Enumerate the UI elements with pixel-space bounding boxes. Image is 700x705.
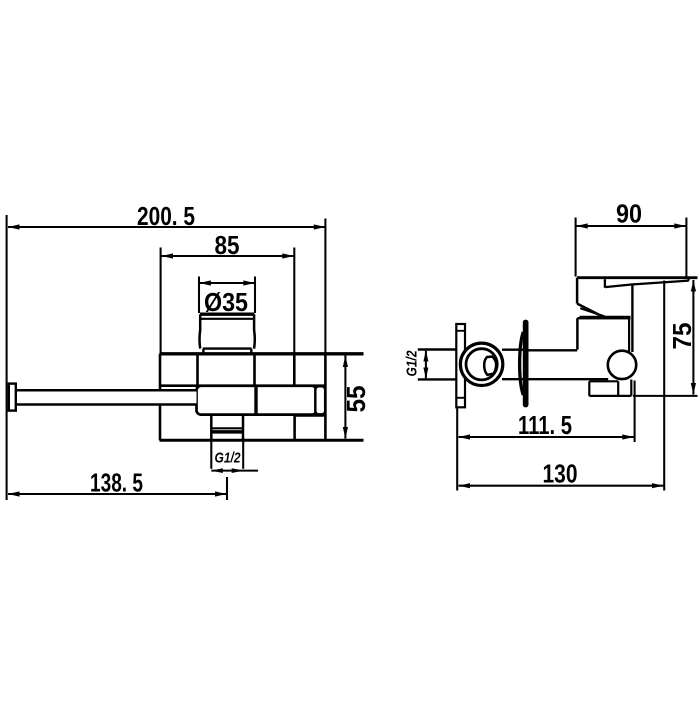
spout bar bottom line (16, 403, 197, 406)
foot top line (589, 380, 618, 382)
lever top line (extends as 75 ext) (577, 276, 698, 279)
arrow G1/2 right (232, 468, 244, 473)
top row divider b (253, 354, 256, 386)
body left edge (576, 318, 579, 349)
dim 90 ext left (575, 218, 577, 277)
bottom row divider c (293, 416, 296, 441)
svg-text:Ø35: Ø35 (204, 287, 248, 317)
arrow 55 bottom (343, 427, 348, 439)
svg-text:75: 75 (667, 323, 697, 350)
dim G1/2 right extension (242, 442, 244, 469)
under-cap line (295, 414, 326, 417)
cartridge neck left (202, 349, 204, 354)
foot right edge (630, 380, 632, 396)
spout block rounded (197, 386, 326, 415)
spout bar (9, 384, 197, 411)
body band top edge (extends right as 55 ext) (160, 352, 364, 355)
arrow 85 right (282, 253, 294, 258)
row divider line (160, 384, 325, 387)
arrow dia35 right (243, 280, 255, 285)
cartridge / handle cap on top (200, 314, 255, 354)
arrow 111.5 left (459, 434, 471, 439)
connection outer circle (460, 343, 502, 385)
dim 75 ext bottom (633, 395, 698, 397)
arrow 200.5 left (8, 224, 20, 229)
dim 90 line (576, 225, 686, 227)
pipe right top (529, 349, 578, 351)
foot bottom line (589, 395, 631, 397)
svg-text:55: 55 (341, 386, 371, 413)
pipe stub left of circle top (418, 348, 458, 350)
wall plate top notch (456, 330, 465, 332)
dim 85 line (162, 255, 294, 257)
arrow 130 left (459, 483, 471, 488)
pipe stub left of circle bottom (418, 378, 458, 380)
nipple left side (210, 415, 213, 441)
dim 138.5 line (8, 493, 227, 495)
nipple thread line thin (211, 427, 243, 429)
cartridge left side (198, 314, 201, 348)
dim dia35 line (199, 282, 255, 284)
top row divider c (293, 354, 296, 386)
collar base thick line (580, 316, 631, 320)
body top line (577, 317, 630, 319)
dim 75 line (692, 280, 694, 395)
spout bar body (16, 390, 197, 404)
nipple thread line thick (211, 430, 243, 434)
body band right edge (324, 354, 327, 440)
arrow 138.5 left (8, 491, 20, 496)
arrow G1/2 bottom (423, 368, 428, 379)
dim 111.5/130 ext left (456, 408, 458, 491)
right cap (315, 386, 325, 414)
flange crescent (520, 332, 524, 395)
cartridge stem hole (484, 357, 496, 375)
dim dia35 extension right (254, 277, 256, 314)
lever tip right edge (687, 278, 689, 281)
body outer right edge (631, 284, 633, 352)
arrow 90 right (674, 223, 686, 228)
handle skirt inner diagonal (580, 308, 604, 316)
arrow G1/2 left (211, 468, 223, 473)
arrow dia35 left (199, 280, 211, 285)
pipe right bottom (529, 378, 609, 380)
svg-text:G1/2: G1/2 (404, 350, 421, 377)
dim 90 ext right (685, 218, 687, 277)
arrow 75 top (691, 280, 696, 292)
svg-text:130: 130 (543, 459, 578, 489)
cartridge second line (200, 318, 254, 320)
spout block divider (254, 386, 257, 414)
svg-text:111. 5: 111. 5 (518, 410, 572, 440)
lever front face (604, 279, 606, 288)
spout end cap (9, 384, 16, 411)
arrow 55 top (343, 356, 348, 368)
cartridge neck right (250, 349, 252, 354)
cartridge top thick line (200, 313, 254, 316)
dim dia35 extension left (198, 277, 200, 314)
arrow 90 left (576, 223, 588, 228)
right view object (418, 278, 698, 408)
svg-text:138. 5: 138. 5 (90, 468, 143, 498)
dim G1/2 line vertical (425, 351, 427, 378)
wall plate bottom notch (456, 397, 465, 399)
arrowheads left view (8, 224, 348, 496)
foot divider (617, 381, 619, 396)
arrowheads right view (423, 223, 696, 488)
svg-text:85: 85 (215, 230, 240, 260)
dim 200.5 extension left (6, 215, 8, 500)
dim 55 line (344, 356, 346, 439)
svg-text:90: 90 (616, 199, 642, 229)
dim 111.5 ext right (634, 381, 636, 443)
nipple right side (242, 415, 245, 441)
handle skirt outer diagonal (577, 304, 604, 318)
dim G1/2 line (211, 470, 258, 472)
nipple below block (211, 415, 243, 441)
dim 200.5 line (8, 226, 325, 228)
dim 111.5 line (459, 436, 634, 438)
svg-text:G1/2: G1/2 (215, 450, 242, 467)
body inner right edge (628, 319, 630, 351)
foot left edge (588, 381, 590, 396)
svg-text:200. 5: 200. 5 (137, 201, 195, 231)
dim 85 extension right (293, 248, 295, 354)
connection inner circle (466, 349, 497, 380)
arrow 75 bottom (691, 383, 696, 395)
dim 200.5 extension right (324, 219, 326, 354)
cartridge bottom line (203, 347, 252, 349)
dim 130 ext right (663, 281, 665, 491)
pipe mid bottom (502, 378, 523, 380)
dim 85 extension left (160, 248, 162, 354)
pipe mid top (502, 349, 523, 351)
top row divider a (196, 354, 199, 386)
dim 130 line (459, 485, 664, 487)
arrow 130 right (652, 483, 664, 488)
arrow 111.5 right (622, 434, 634, 439)
arrow 138.5 right (215, 491, 227, 496)
flange disc edge (523, 320, 529, 408)
dimension texts left view (90, 201, 371, 498)
arrow 85 left (162, 253, 174, 258)
dim G1/2 left extension (210, 442, 212, 469)
body band bottom edge (extends right as 55 ext) (160, 439, 364, 442)
handle left edge (576, 278, 579, 304)
arrow 200.5 right (314, 224, 326, 229)
wall plate (456, 324, 465, 407)
dim 138.5 extension right (226, 477, 228, 500)
arrow G1/2 top (423, 350, 428, 361)
body band left edge (159, 354, 162, 440)
spout block (197, 386, 317, 415)
lever underside (605, 281, 689, 288)
spout bar top line (16, 389, 197, 392)
cartridge right side (253, 314, 256, 348)
dimension texts right view (404, 199, 698, 489)
ball joint circle (608, 351, 636, 379)
